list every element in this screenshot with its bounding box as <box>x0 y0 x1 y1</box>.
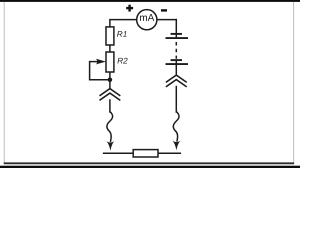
polarity + <box>126 5 133 12</box>
current squiggle arrow (left) <box>107 112 115 151</box>
polarity - <box>161 9 167 11</box>
wire (bottom conductor left) <box>104 152 134 154</box>
wire <box>175 20 177 38</box>
wire <box>158 19 177 21</box>
wire <box>109 100 111 112</box>
wire <box>109 72 111 89</box>
wire <box>109 45 111 52</box>
battery <box>166 34 189 75</box>
wire (R2 wiper return) <box>90 62 110 80</box>
electrode chevrons (right) <box>167 75 187 86</box>
wire <box>175 87 177 113</box>
resistor R1 <box>106 27 127 45</box>
junction dot <box>108 78 113 83</box>
potentiometer R2 <box>90 52 128 72</box>
current squiggle arrow (right) <box>173 112 181 151</box>
wire (bottom conductor right) <box>158 152 180 154</box>
milliammeter mA <box>137 10 157 30</box>
resistor (earth resistance, bottom) <box>133 150 158 157</box>
electrode chevrons (left) <box>100 89 120 100</box>
wire <box>110 20 137 27</box>
